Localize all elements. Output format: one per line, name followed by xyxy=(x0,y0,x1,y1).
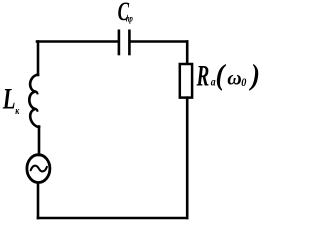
wire left lower (source to bottom corner) xyxy=(37,183,40,218)
wire right lower (resistor to bottom corner) xyxy=(186,98,189,218)
label пр (capacitor subscript) xyxy=(126,14,133,24)
AC source G1 sine symbol xyxy=(31,166,47,172)
svg-text:R: R xyxy=(196,60,210,92)
label а (resistor subscript) xyxy=(211,76,216,89)
label 0 (omega subscript) xyxy=(241,76,246,89)
capacitor Cпр (two plates) xyxy=(119,31,129,54)
inductor Lк (three left bumps) xyxy=(29,75,39,128)
label C (capacitor designator) xyxy=(118,0,130,26)
wire top segment right of capacitor xyxy=(131,40,187,43)
wire left upper (top corner to inductor) xyxy=(37,42,40,76)
wire top segment left of capacitor xyxy=(37,40,117,43)
svg-text:(: ( xyxy=(216,59,227,92)
label ( (open paren) xyxy=(216,59,227,92)
wire left middle (inductor to source) xyxy=(38,127,41,156)
svg-text:0: 0 xyxy=(241,76,246,89)
wire right upper (corner to resistor) xyxy=(186,42,189,65)
svg-text:пр: пр xyxy=(126,14,133,24)
AC source G1 (circle) xyxy=(27,155,50,183)
label R (resistor designator) xyxy=(196,60,210,92)
label ω (omega) xyxy=(227,67,241,89)
label к (inductor subscript) xyxy=(15,105,19,116)
svg-text:): ) xyxy=(248,59,260,92)
svg-text:L: L xyxy=(2,82,16,116)
svg-text:к: к xyxy=(15,105,19,116)
svg-text:ω: ω xyxy=(227,67,241,89)
wire bottom xyxy=(38,217,187,220)
label ) (close paren) xyxy=(248,59,260,92)
label L (inductor designator) xyxy=(2,82,16,116)
resistor Ra(w0) body xyxy=(180,64,192,98)
